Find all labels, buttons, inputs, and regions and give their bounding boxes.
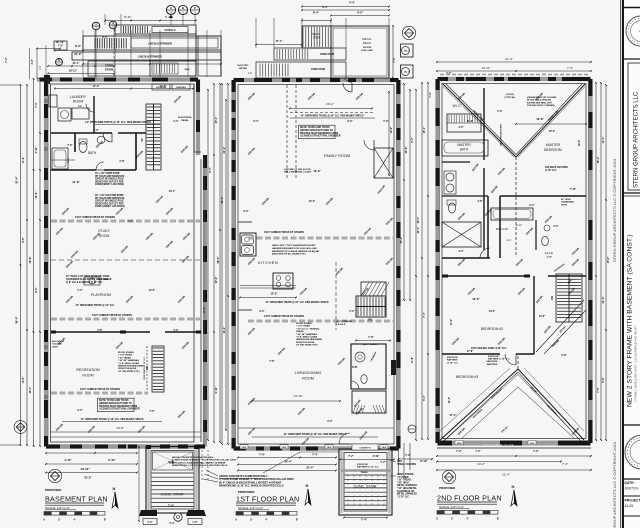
svg-text:VE IN: VE IN	[242, 447, 247, 449]
svg-text:NOTE: TRUSS AND TRUSS: NOTE: TRUSS AND TRUSS	[300, 126, 330, 129]
svg-text:7'-1": 7'-1"	[392, 56, 396, 62]
first floor cond stair boxes	[274, 48, 346, 60]
svg-text:21'-4": 21'-4"	[306, 466, 314, 470]
master bath shower	[442, 222, 481, 247]
hip roof lower	[439, 369, 518, 441]
first floor stair	[356, 296, 386, 317]
first floor inner wall face	[238, 85, 394, 445]
svg-text:7'-4": 7'-4"	[168, 504, 175, 508]
powder room	[351, 344, 386, 389]
svg-text:21'-2": 21'-2"	[222, 146, 226, 154]
svg-text:9'-0": 9'-0"	[77, 409, 82, 412]
svg-text:11'-8": 11'-8"	[411, 356, 414, 363]
svg-text:16'-4": 16'-4"	[578, 140, 581, 147]
svg-text:10/07/24: 10/07/24	[625, 487, 638, 491]
svg-text:4'-8": 4'-8"	[477, 200, 482, 203]
svg-text:7'-0": 7'-0"	[248, 73, 253, 75]
svg-text:* 7.75" RISER: * 7.75" RISER	[296, 326, 310, 328]
svg-text:NEW 2 STORY FRAME WITH BASEMEN: NEW 2 STORY FRAME WITH BASEMENT (SA CONS…	[627, 235, 634, 407]
first floor bump treads	[345, 474, 387, 476]
chase block right wall	[391, 360, 396, 375]
svg-text:MASTER: MASTER	[546, 143, 561, 147]
svg-text:N: N	[512, 484, 515, 489]
svg-text:2X8 ROOF: 2X8 ROOF	[357, 464, 368, 466]
svg-text:9'-2": 9'-2"	[411, 136, 414, 142]
svg-text:6'-2": 6'-2"	[327, 420, 332, 423]
svg-text:ROOM: ROOM	[82, 374, 93, 378]
svg-text:7'-4": 7'-4"	[312, 453, 318, 457]
svg-text:* 6'-8" (MIN.) CLEAR: * 6'-8" (MIN.) CLEAR	[118, 362, 139, 365]
svg-text:13'-4": 13'-4"	[28, 386, 32, 394]
svg-text:7'-6": 7'-6"	[67, 144, 72, 147]
svg-text:9'-6": 9'-6"	[259, 310, 264, 313]
basement left dimension columns	[39, 79, 41, 446]
svg-text:OF THE STAIR (TYP.): OF THE STAIR (TYP.)	[118, 370, 140, 373]
svg-text:6'-11": 6'-11"	[516, 225, 522, 227]
svg-text:6'-8": 6'-8"	[97, 329, 102, 332]
basement girder band 1	[51, 220, 201, 223]
svg-text:PROPOSED: PROPOSED	[45, 488, 61, 492]
right side diagonals	[536, 300, 584, 352]
svg-text:BEDROOM #2: BEDROOM #2	[481, 327, 503, 331]
fireplace box	[374, 148, 393, 178]
title block border	[622, 0, 624, 528]
architect seal top	[626, 16, 640, 46]
foundation note pointers	[206, 470, 218, 476]
svg-text:ELECTRICAL: ELECTRICAL	[178, 116, 193, 119]
basement girder band 2	[51, 318, 201, 321]
svg-text:(TYP.): (TYP.)	[52, 346, 58, 348]
first floor exterior walls	[234, 78, 399, 82]
svg-text:5'-4": 5'-4"	[349, 1, 355, 5]
svg-text:MASTER: MASTER	[457, 143, 471, 147]
svg-text:9'-2": 9'-2"	[34, 286, 38, 292]
svg-text:10'-8": 10'-8"	[539, 315, 546, 318]
svg-text:6'-0": 6'-0"	[75, 44, 82, 48]
girder band kitchen lower	[248, 320, 394, 323]
svg-text:7'-2": 7'-2"	[380, 461, 386, 464]
svg-text:(CONT.): (CONT.)	[506, 94, 514, 96]
extra wall black segments	[60, 78, 72, 82]
svg-text:BEDROOM: BEDROOM	[544, 148, 562, 152]
svg-text:12'-6": 12'-6"	[472, 297, 480, 301]
svg-text:1ST FLOOR PLAN: 1ST FLOOR PLAN	[236, 495, 299, 504]
second floor top dims	[437, 70, 591, 72]
svg-text:24-05: 24-05	[625, 504, 634, 508]
svg-text:DECK: DECK	[363, 41, 371, 45]
svg-text:3'-9": 3'-9"	[243, 210, 248, 213]
svg-text:5'-0": 5'-0"	[383, 120, 388, 123]
svg-text:* 42" HIGH: * 42" HIGH	[397, 481, 409, 484]
svg-text:16'-0": 16'-0"	[203, 306, 206, 314]
svg-text:13'-11": 13'-11"	[481, 66, 490, 70]
svg-text:* 10" (10"+1" NOSING): * 10" (10"+1" NOSING)	[296, 328, 320, 330]
first floor bump dots	[348, 476, 349, 477]
svg-text:4'-0": 4'-0"	[458, 126, 463, 129]
svg-text:VE IN: VE IN	[282, 447, 287, 449]
svg-text:HEADROOM MEASURED: HEADROOM MEASURED	[118, 365, 145, 368]
basement interior top dim	[55, 88, 193, 90]
svg-text:GIRDER MANUFACTURER TO: GIRDER MANUFACTURER TO	[300, 129, 333, 132]
svg-text:11'-0": 11'-0"	[467, 120, 473, 123]
hip roof ridge upper	[443, 84, 516, 157]
second floor right dims	[595, 83, 597, 440]
svg-text:8'-0": 8'-0"	[347, 120, 352, 123]
svg-text:7'-2": 7'-2"	[348, 455, 354, 458]
svg-text:B: B	[58, 58, 60, 62]
svg-text:RECREATION: RECREATION	[76, 368, 100, 372]
svg-text:7'-10": 7'-10"	[570, 188, 577, 191]
svg-text:7'-2": 7'-2"	[405, 453, 411, 457]
svg-text:PROVIDE SHOP DRAWINGS FROM: PROVIDE SHOP DRAWINGS FROM	[300, 132, 338, 135]
svg-text:11'-2": 11'-2"	[222, 326, 226, 334]
svg-text:STUDY: STUDY	[98, 229, 110, 233]
svg-text:REINFORCING @ 16" O.C. W/SOLID: REINFORCING @ 16" O.C. W/SOLID GROUTED C…	[219, 485, 284, 488]
svg-text:4'-0": 4'-0"	[458, 250, 463, 253]
girder band kitchen upper	[248, 237, 394, 240]
svg-text:BATH: BATH	[460, 148, 469, 152]
svg-text:METAL: METAL	[312, 32, 321, 36]
svg-text:11'-9": 11'-9"	[72, 180, 80, 184]
detail bubble right of bump	[408, 425, 416, 433]
planC window inner lines	[439, 79, 441, 443]
family room interior dim	[388, 92, 390, 175]
svg-text:17'-4": 17'-4"	[450, 319, 453, 326]
vent boxes bottom wall second floor	[455, 441, 463, 445]
svg-text:HEADROOM MEASURED: HEADROOM MEASURED	[296, 338, 323, 341]
svg-text:20'-4": 20'-4"	[417, 216, 420, 224]
svg-text:4'-11": 4'-11"	[64, 458, 72, 462]
svg-text:9'-8": 9'-8"	[22, 236, 25, 242]
svg-text:2X8 ROOF RAFTERS: 2X8 ROOF RAFTERS	[499, 124, 502, 146]
svg-text:7'-2": 7'-2"	[4, 56, 8, 62]
basement right dimension columns	[213, 84, 215, 442]
svg-text:LIVE LOAD: LIVE LOAD	[361, 49, 373, 52]
svg-text:100 PSF: 100 PSF	[363, 47, 372, 49]
svg-text:UP: UP	[141, 138, 144, 142]
svg-text:DATE:: DATE:	[625, 481, 635, 485]
svg-text:STERN GROUP ARCHITECTS LLC © C: STERN GROUP ARCHITECTS LLC © COPYRIGHT-2…	[612, 441, 617, 528]
svg-text:PROVIDE SHOP DRAWINGS FROM: PROVIDE SHOP DRAWINGS FROM	[99, 405, 137, 408]
svg-text:14" OPEN WEB TRUSS @ 16" O.C.: 14" OPEN WEB TRUSS @ 16" O.C. PER MANUF …	[301, 115, 364, 118]
first floor left dimension columns	[227, 84, 229, 444]
basement bottom dimension rows	[46, 452, 137, 454]
svg-text:* 3.75" O.C.: * 3.75" O.C.	[397, 496, 410, 498]
svg-text:P.R.: P.R.	[352, 365, 357, 369]
svg-text:LA SOLD: LA SOLD	[337, 323, 346, 326]
svg-text:SCALE: 1/4"=1'-0": SCALE: 1/4"=1'-0"	[45, 506, 70, 510]
svg-text:2'-4": 2'-4"	[173, 120, 178, 123]
svg-text:2 FAMILY DWELLING UNIT - 123 E: 2 FAMILY DWELLING UNIT - 123 EXAMPLE AVE…	[634, 326, 638, 402]
bedroom divider wall	[442, 353, 500, 355]
svg-text:PANEL: PANEL	[181, 119, 189, 122]
svg-text:14'-4": 14'-4"	[416, 226, 420, 234]
svg-text:DEDICATED OUTLET PER: DEDICATED OUTLET PER	[95, 180, 124, 183]
svg-text:7'-0": 7'-0"	[596, 386, 600, 392]
svg-text:TREAD: TREAD	[361, 471, 368, 474]
svg-text:6'-11": 6'-11"	[108, 458, 116, 462]
svg-text:HANGER DESIGNED FOR 3,500 LBS: HANGER DESIGNED FOR 3,500 LBS LOAD	[272, 247, 317, 250]
svg-text:COND STAIR: COND STAIR	[320, 53, 334, 56]
svg-text:5'-8": 5'-8"	[561, 354, 566, 357]
svg-text:15'-8": 15'-8"	[28, 256, 32, 264]
svg-text:GEN: GEN	[185, 69, 190, 71]
svg-text:LICENSED STRUCTURAL ENGINEER: LICENSED STRUCTURAL ENGINEER	[99, 408, 140, 411]
first floor bump landing bar	[341, 469, 392, 472]
svg-text:6'-4": 6'-4"	[313, 11, 320, 15]
svg-text:AS PER NDS REQ. (TYP.: AS PER NDS REQ. (TYP.	[527, 101, 553, 104]
deck detail bubble	[405, 29, 414, 38]
svg-text:STAIR: STAIR	[105, 68, 113, 72]
first floor wall solid segments	[234, 78, 245, 82]
svg-text:WOOD STAIRS:: WOOD STAIRS:	[296, 322, 313, 325]
basement interior wall lines	[51, 84, 195, 442]
svg-text:12'-6": 12'-6"	[214, 276, 218, 284]
vent boxes bottom wall first floor	[240, 445, 248, 449]
svg-text:14" OPEN WEB TRUSS @ 16" O.C.: 14" OPEN WEB TRUSS @ 16" O.C. PER MANUF …	[284, 433, 347, 436]
svg-text:5'-4": 5'-4"	[422, 394, 426, 400]
svg-text:5'-0": 5'-0"	[77, 289, 82, 292]
basement plan exterior walls	[37, 77, 198, 81]
kitchen dashed girder	[335, 262, 337, 330]
svg-text:PROPOSED: PROPOSED	[238, 490, 254, 494]
svg-text:FROM THE NOSE: FROM THE NOSE	[296, 342, 315, 344]
svg-text:WALL W/PARTIAL LOADS: WALL W/PARTIAL LOADS	[284, 171, 312, 174]
svg-text:BATH: BATH	[88, 151, 97, 155]
second floor wall solid segments	[438, 77, 449, 81]
svg-text:RAFTERS @ 16" O.C.: RAFTERS @ 16" O.C.	[357, 466, 380, 469]
location box basement	[152, 84, 170, 90]
svg-text:17'-1": 17'-1"	[275, 39, 283, 43]
second floor mid walls	[442, 257, 490, 259]
svg-text:PROJECT:: PROJECT:	[625, 499, 640, 503]
svg-text:2ND FLOOR PLAN: 2ND FLOOR PLAN	[437, 494, 502, 503]
bottom wall band detail	[437, 447, 591, 449]
svg-text:A: A	[112, 21, 114, 25]
svg-text:* 42" HIGH METAL: * 42" HIGH METAL	[397, 487, 418, 490]
svg-text:STERN GROUP ARCHITECTS LLC © C: STERN GROUP ARCHITECTS LLC © COPYRIGHT-2…	[612, 158, 617, 262]
svg-text:14'-10": 14'-10"	[293, 394, 302, 398]
svg-text:CC/4" GIRDER TRUSS BY OTHERS: CC/4" GIRDER TRUSS BY OTHERS	[75, 216, 115, 219]
svg-text:4': 4'	[73, 518, 75, 522]
svg-text:8'-4": 8'-4"	[209, 166, 212, 172]
svg-text:11'-4": 11'-4"	[448, 397, 451, 403]
svg-text:5'-4": 5'-4"	[127, 220, 132, 223]
svg-text:01XXXL.3: 01XXXL.3	[165, 29, 177, 32]
svg-text:8': 8'	[497, 517, 499, 521]
svg-text:FAMILY ROOM: FAMILY ROOM	[324, 154, 350, 158]
kitchen stove	[273, 273, 293, 289]
svg-text:FOR EACH EXT. CORNER): FOR EACH EXT. CORNER)	[527, 104, 555, 107]
basement bump footings	[139, 510, 157, 516]
svg-text:7'-2": 7'-2"	[456, 449, 462, 453]
svg-text:* 6'-8" (MIN.) CLEAR: * 6'-8" (MIN.) CLEAR	[296, 336, 317, 339]
svg-text:LIGHTING: LIGHTING	[176, 87, 186, 89]
svg-text:16'-9": 16'-9"	[313, 169, 321, 173]
countys box	[352, 444, 378, 450]
svg-text:VE IN: VE IN	[382, 447, 387, 449]
svg-text:14'-6": 14'-6"	[22, 376, 25, 384]
svg-text:BEDROOM #3: BEDROOM #3	[456, 375, 478, 379]
svg-text:15'-2": 15'-2"	[270, 292, 278, 296]
svg-text:7'-0": 7'-0"	[40, 66, 42, 71]
svg-text:* 34"-38" HANDRAIL: * 34"-38" HANDRAIL	[118, 359, 140, 362]
roof eave dashed line	[440, 74, 590, 76]
svg-text:21'-1": 21'-1"	[73, 62, 81, 65]
first floor small room below pr	[352, 391, 386, 413]
svg-text:3'-0": 3'-0"	[93, 129, 98, 132]
svg-text:BASEMENT PLAN: BASEMENT PLAN	[45, 495, 108, 504]
far left dimension lines	[20, 85, 22, 445]
svg-text:16" x 30" SUMP PUMP: 16" x 30" SUMP PUMP	[95, 173, 120, 175]
svg-text:WOOD STAIRS:: WOOD STAIRS:	[118, 351, 135, 354]
svg-text:13'-10": 13'-10"	[80, 467, 90, 471]
svg-text:PLAYROOM: PLAYROOM	[91, 293, 111, 297]
basement wall solid segments	[40, 78, 52, 82]
svg-text:14'-0": 14'-0"	[477, 462, 485, 466]
svg-text:7'-4": 7'-4"	[562, 462, 568, 466]
first floor stair landing	[361, 282, 386, 296]
svg-text:CC/4" GIRDER TRUSS BY OTHERS: CC/4" GIRDER TRUSS BY OTHERS	[264, 231, 304, 234]
svg-text:SCALE: 1/4"=1'-0": SCALE: 1/4"=1'-0"	[238, 506, 263, 510]
between plan dims BC	[409, 90, 411, 300]
second floor mid wall 2	[442, 275, 530, 277]
svg-text:6'-4": 6'-4"	[322, 5, 328, 9]
svg-text:16'-11": 16'-11"	[56, 40, 66, 44]
basement top dimension rows	[105, 20, 196, 22]
svg-text:DEDICATED OUTLET PER: DEDICATED OUTLET PER	[95, 202, 124, 205]
svg-text:17'-8": 17'-8"	[467, 350, 474, 353]
svg-text:8'-8": 8'-8"	[602, 376, 605, 382]
svg-text:7'-0": 7'-0"	[149, 410, 154, 413]
svg-text:9'-11": 9'-11"	[214, 386, 218, 394]
north arrow basement	[112, 492, 118, 508]
svg-text:7'-4": 7'-4"	[422, 311, 426, 317]
svg-text:OUTLINE OF 2ND FLOOR: OUTLINE OF 2ND FLOOR	[284, 169, 311, 171]
svg-text:* 7.75" RISER: * 7.75" RISER	[118, 355, 132, 357]
svg-text:NOTE: TRUSS AND TRUSS: NOTE: TRUSS AND TRUSS	[99, 399, 129, 402]
svg-text:2': 2'	[451, 517, 453, 521]
svg-text:CIRCUIT W/ SINGLE POLE: CIRCUIT W/ SINGLE POLE	[95, 179, 124, 181]
svg-text:12'-0": 12'-0"	[549, 130, 556, 133]
left margin detail marker	[16, 423, 24, 431]
du boxes	[401, 44, 414, 57]
svg-text:4'-4": 4'-4"	[169, 522, 175, 525]
svg-text:FROM THE NOSE: FROM THE NOSE	[118, 368, 137, 370]
svg-text:15'-4": 15'-4"	[422, 126, 426, 134]
svg-text:* 34"-38" HANDRAIL: * 34"-38" HANDRAIL	[296, 333, 318, 336]
svg-text:DN: DN	[368, 319, 372, 322]
basement note box	[98, 398, 134, 412]
svg-text:13'-2": 13'-2"	[489, 310, 496, 313]
svg-text:12'-0": 12'-0"	[309, 200, 316, 203]
svg-text:5'-2": 5'-2"	[349, 310, 354, 313]
svg-text:MAXIMUM TOP FLANGE HANGER OR E: MAXIMUM TOP FLANGE HANGER OR EQUAL	[272, 250, 320, 253]
svg-text:21'-4": 21'-4"	[502, 473, 510, 477]
svg-text:7'-5": 7'-5"	[567, 66, 573, 70]
svg-text:5'-6": 5'-6"	[497, 110, 502, 113]
svg-text:2X8 ROOF: 2X8 ROOF	[488, 356, 499, 358]
svg-text:4'-11": 4'-11"	[34, 146, 38, 154]
svg-text:GIRDER MANUFACTURER TO: GIRDER MANUFACTURER TO	[99, 402, 132, 405]
svg-text:ROOM: ROOM	[73, 100, 84, 104]
svg-text:N: N	[306, 483, 309, 488]
svg-text:5.5 C.M.: 5.5 C.M.	[545, 253, 554, 255]
first floor right dimension columns	[403, 84, 405, 300]
svg-text:4': 4'	[265, 518, 267, 522]
svg-text:STAIR: STAIR	[313, 35, 321, 39]
first floor deck and metal stair	[302, 26, 331, 48]
svg-text:2': 2'	[58, 518, 60, 522]
date box	[623, 478, 640, 480]
svg-text:METER: METER	[239, 68, 247, 70]
svg-text:PROPOSED: PROPOSED	[439, 486, 455, 490]
svg-text:VE IN: VE IN	[327, 447, 332, 449]
svg-text:REINFORCING @ 16" O.C. W/SOLID: REINFORCING @ 16" O.C. W/SOLID GROUTED C…	[172, 465, 228, 467]
svg-text:13'-8": 13'-8"	[536, 117, 544, 121]
svg-text:1'-2": 1'-2"	[147, 521, 152, 524]
north arrow second floor	[511, 490, 517, 506]
second floor left dims	[427, 83, 429, 439]
svg-text:CONC. STAIR: CONC. STAIR	[354, 485, 377, 489]
svg-text:METAL SPINDLES: METAL SPINDLES	[397, 493, 417, 496]
svg-text:LAUNDRY: LAUNDRY	[70, 95, 87, 99]
svg-text:CONC. STAIRS:: CONC. STAIRS:	[397, 473, 414, 476]
extension verticals first floor top	[255, 18, 257, 48]
svg-text:PIT ON 20 AMP SEPARATE: PIT ON 20 AMP SEPARATE	[95, 197, 125, 200]
svg-text:BAR SINK: BAR SINK	[98, 278, 109, 281]
top left corner details	[54, 41, 67, 50]
svg-text:VE IN: VE IN	[457, 443, 462, 445]
svg-text:TREAD: TREAD	[296, 330, 304, 333]
svg-text:PIT ON 20 AMP SEPARATE: PIT ON 20 AMP SEPARATE	[95, 175, 125, 178]
north arrow first floor	[305, 489, 311, 505]
svg-text:2X8 ROOF RAFTERS: 2X8 ROOF RAFTERS	[545, 166, 568, 169]
svg-text:1'-2": 1'-2"	[192, 521, 197, 524]
kitchen sink cabinet	[240, 233, 256, 256]
svg-text:10'-1": 10'-1"	[214, 116, 218, 124]
svg-text:5'-0": 5'-0"	[507, 240, 512, 242]
basement bottom stair bump	[146, 447, 199, 514]
laundry right wall	[93, 96, 95, 133]
dashed joist lines basement	[51, 259, 201, 261]
svg-text:8'-11": 8'-11"	[124, 15, 131, 19]
svg-text:HEAVY DUTY TOP FLANGE/FACE MOU: HEAVY DUTY TOP FLANGE/FACE MOUNT	[272, 244, 316, 247]
svg-text:@ 16" O.C.: @ 16" O.C.	[545, 170, 557, 172]
svg-text:@ 16" O.C.: @ 16" O.C.	[447, 362, 459, 364]
svg-text:CC/4" GIRDER TRUSS BY OTHERS: CC/4" GIRDER TRUSS BY OTHERS	[80, 388, 120, 391]
svg-text:(2)13 STRINGER: (2)13 STRINGER	[336, 321, 352, 323]
svg-text:11'-2": 11'-2"	[22, 156, 25, 163]
svg-text:GUARDRAIL: GUARDRAIL	[561, 201, 575, 204]
svg-text:11'-9": 11'-9"	[34, 191, 38, 199]
svg-text:* 8" RISER: * 8" RISER	[397, 477, 409, 479]
svg-text:METAL HANDRAIL: METAL HANDRAIL	[397, 484, 418, 487]
svg-text:CC/4" GIRDER TRUSS BY OTHERS: CC/4" GIRDER TRUSS BY OTHERS	[264, 315, 304, 318]
svg-text:7'-2": 7'-2"	[475, 450, 480, 453]
svg-text:7'-8": 7'-8"	[368, 336, 374, 339]
svg-text:7'-4": 7'-4"	[361, 518, 368, 522]
svg-text:CODE(VERIFY LOCATION): CODE(VERIFY LOCATION)	[95, 183, 124, 186]
svg-text:3'-0": 3'-0"	[553, 225, 558, 228]
svg-text:4'-4": 4'-4"	[31, 59, 34, 64]
svg-text:RAFTERS @ 16" O.C.: RAFTERS @ 16" O.C.	[488, 358, 511, 361]
between plan dims AB	[201, 450, 203, 482]
svg-text:17'-3": 17'-3"	[92, 84, 100, 88]
svg-text:ROOM: ROOM	[302, 377, 314, 381]
svg-text:12'-4": 12'-4"	[602, 136, 605, 144]
svg-text:@ 50: @ 50	[546, 257, 552, 259]
